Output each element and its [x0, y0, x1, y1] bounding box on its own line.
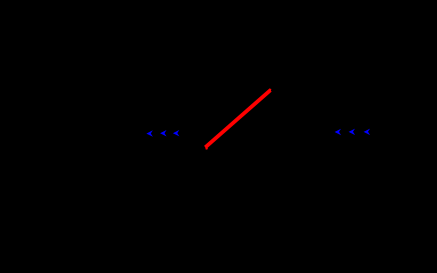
compass needle (red) [205, 90, 270, 147]
current arrow 2 [160, 130, 167, 137]
current arrow 1 [146, 130, 153, 137]
current arrow 4 [335, 129, 342, 136]
needle tip spur (top) [269, 89, 272, 92]
current arrow 5 [349, 129, 356, 136]
current arrow 3 [173, 130, 180, 137]
wire [0, 131, 437, 133]
current arrow 6 [364, 129, 371, 136]
needle tail spur (bottom) [205, 147, 208, 149]
